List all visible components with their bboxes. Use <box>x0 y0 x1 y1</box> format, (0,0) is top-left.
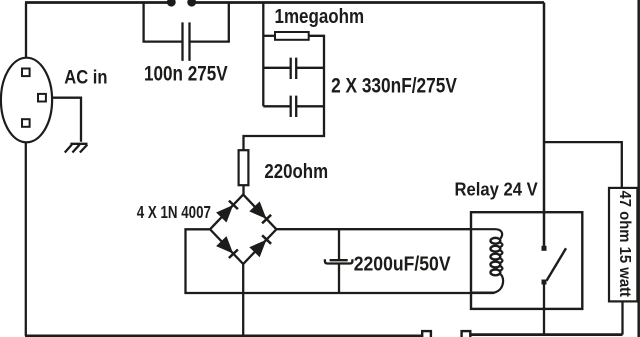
svg-text:AC in: AC in <box>64 67 107 89</box>
svg-text:2200uF/50V: 2200uF/50V <box>354 253 451 275</box>
svg-text:100n 275V: 100n 275V <box>144 63 228 86</box>
svg-text:220ohm: 220ohm <box>264 160 328 183</box>
svg-text:4 X 1N 4007: 4 X 1N 4007 <box>137 202 211 222</box>
svg-text:Relay 24 V: Relay 24 V <box>455 179 539 200</box>
svg-text:2 X 330nF/275V: 2 X 330nF/275V <box>331 74 457 97</box>
svg-text:1megaohm: 1megaohm <box>275 6 365 28</box>
svg-text:47 ohm 15 watt: 47 ohm 15 watt <box>616 191 633 298</box>
